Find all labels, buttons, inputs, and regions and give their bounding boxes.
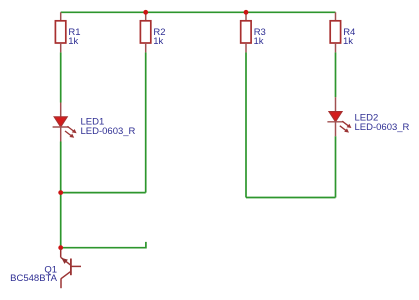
wire branch3 vertical (R3 down) — [245, 52, 247, 197]
transistor Q1 — [10, 249, 81, 288]
junction dot node B — [58, 245, 63, 250]
LED LED1 — [53, 103, 136, 142]
wire branch1 vertical (node A to node B) — [60, 193, 62, 248]
svg-text:1k: 1k — [254, 36, 264, 47]
resistor R1 — [55, 12, 80, 52]
svg-text:BC548BTA: BC548BTA — [10, 273, 57, 284]
svg-text:1k: 1k — [343, 36, 353, 47]
resistor R2 — [140, 12, 165, 52]
wire node B horizontal with up stub — [61, 242, 146, 248]
wire branch4 vertical (LED2 down) — [335, 136, 337, 197]
junction dot top at R2 — [143, 10, 148, 15]
wire top horizontal bus — [61, 11, 336, 13]
junction dot node A — [58, 190, 63, 195]
wire branch1 vertical (R1 to LED1) — [60, 52, 62, 102]
wire horizontal node A to branch2 — [61, 192, 146, 194]
wire branch1 vertical (LED1 to node A) — [60, 142, 62, 193]
LED LED2 — [327, 97, 409, 136]
svg-text:LED-0603_R: LED-0603_R — [81, 126, 136, 137]
junction dot top at R3 — [244, 10, 249, 15]
wire branch2 vertical (R2 down) — [145, 52, 147, 192]
resistor R3 — [241, 12, 266, 52]
svg-text:1k: 1k — [68, 36, 78, 47]
resistor R4 — [330, 12, 355, 52]
wire branch4 vertical (R4 to LED2) — [335, 52, 337, 97]
wire horizontal branch3 to branch4 — [246, 197, 336, 199]
svg-text:LED-0603_R: LED-0603_R — [355, 122, 410, 133]
svg-text:1k: 1k — [153, 36, 163, 47]
